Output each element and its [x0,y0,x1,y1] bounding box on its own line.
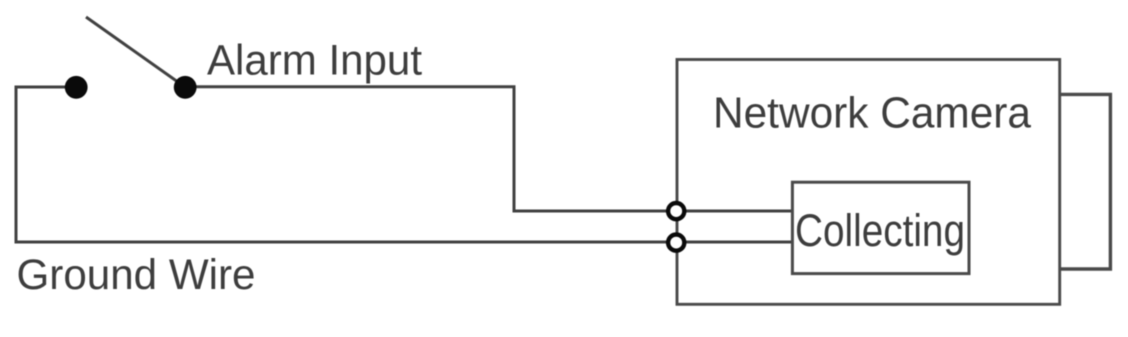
wire ground: left dot to left edge, down, and across to camera [16,87,793,242]
switch contact dot left [65,76,88,99]
network camera box [677,60,1060,305]
svg-text:Collecting: Collecting [795,205,965,256]
switch lever [86,17,185,87]
terminal circle lower (ground) [668,235,684,251]
svg-text:Ground Wire: Ground Wire [17,251,256,299]
svg-text:Network Camera: Network Camera [713,89,1032,138]
camera lens bracket [1060,94,1110,269]
terminal circle upper (alarm input) [668,203,684,219]
collecting box [792,182,969,273]
wire alarm: right dot to the right, down at x514, across to camera [184,87,793,211]
svg-text:Alarm Input: Alarm Input [207,36,422,84]
switch contact dot right [174,76,197,99]
